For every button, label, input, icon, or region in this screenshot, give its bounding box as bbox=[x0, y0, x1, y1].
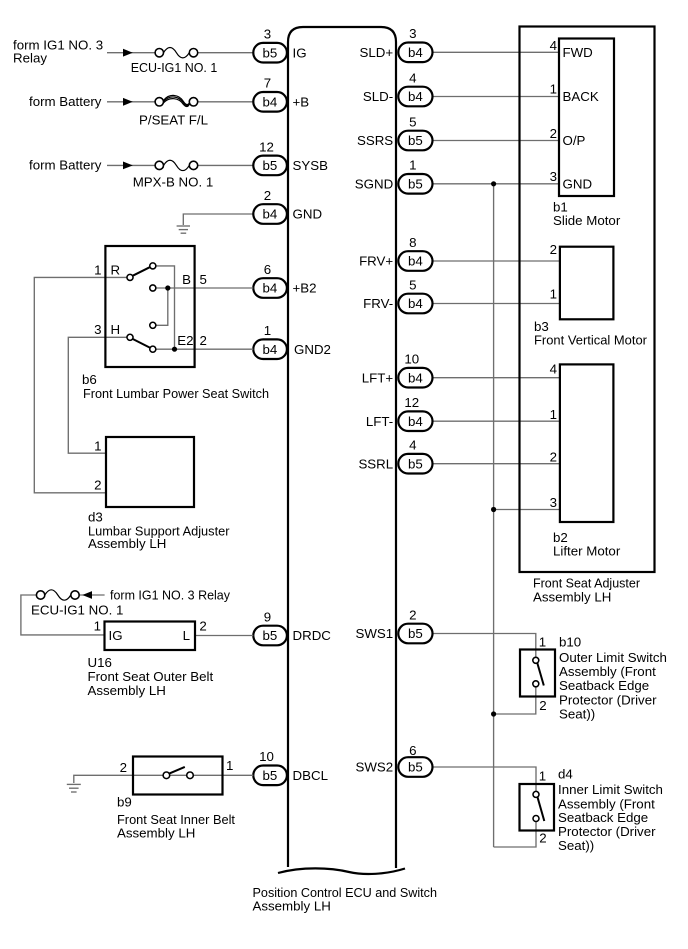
wire +B feed row bbox=[107, 101, 155, 103]
connector b4 pin 4 (SLD-) bbox=[398, 70, 432, 106]
arrow IG feed bbox=[123, 49, 133, 57]
svg-text:b5: b5 bbox=[408, 456, 423, 471]
svg-text:1: 1 bbox=[226, 758, 233, 773]
svg-text:U16: U16 bbox=[88, 655, 112, 670]
svg-text:b4: b4 bbox=[408, 414, 423, 429]
svg-text:Assembly (Front: Assembly (Front bbox=[559, 664, 656, 679]
svg-text:DBCL: DBCL bbox=[293, 768, 328, 783]
svg-text:b6: b6 bbox=[82, 372, 97, 387]
wire SGND to b1 GND bbox=[433, 183, 560, 185]
svg-text:SLD+: SLD+ bbox=[360, 45, 394, 60]
wire b6 internal B junction down to lower contact bbox=[156, 288, 168, 325]
switch b6 H pivot contact bbox=[127, 334, 133, 340]
svg-text:12: 12 bbox=[259, 139, 274, 154]
svg-text:H: H bbox=[111, 322, 121, 337]
svg-text:DRDC: DRDC bbox=[293, 628, 332, 643]
svg-text:form Battery: form Battery bbox=[29, 94, 102, 109]
svg-text:L: L bbox=[183, 628, 190, 643]
svg-text:Front Seat Adjuster: Front Seat Adjuster bbox=[533, 576, 641, 591]
wire SWS1 to b10 pin1 bbox=[433, 634, 536, 661]
wire U16 pin2 to DRDC connector bbox=[195, 635, 253, 637]
fuse ECU-IG1 NO. 1 (U16) bbox=[36, 590, 79, 600]
svg-text:MPX-B NO. 1: MPX-B NO. 1 bbox=[133, 174, 214, 189]
wire LFT+ to b2 pin4 bbox=[433, 377, 560, 379]
svg-text:GND2: GND2 bbox=[294, 342, 331, 357]
svg-text:FRV-: FRV- bbox=[363, 296, 393, 311]
box b3 Front Vertical Motor bbox=[560, 247, 614, 320]
switch b9 left contact bbox=[163, 772, 170, 779]
switch b9 right contact bbox=[187, 772, 194, 779]
svg-text:12: 12 bbox=[404, 395, 419, 410]
svg-text:GND: GND bbox=[563, 177, 593, 192]
svg-text:1: 1 bbox=[94, 619, 101, 634]
svg-text:LFT-: LFT- bbox=[366, 414, 393, 429]
wire IG feed row bbox=[107, 52, 155, 54]
svg-text:Front Seat Outer Belt: Front Seat Outer Belt bbox=[88, 669, 214, 684]
svg-text:1: 1 bbox=[550, 407, 557, 422]
svg-text:1: 1 bbox=[539, 635, 546, 650]
svg-text:+B2: +B2 bbox=[293, 281, 317, 296]
connector b5 pin 5 (SSRS) bbox=[398, 114, 432, 150]
svg-text:b4: b4 bbox=[408, 89, 423, 104]
svg-text:Relay: Relay bbox=[13, 51, 47, 66]
svg-text:ECU-IG1 NO. 1: ECU-IG1 NO. 1 bbox=[131, 60, 218, 75]
svg-text:Assembly LH: Assembly LH bbox=[117, 826, 195, 841]
svg-text:2: 2 bbox=[409, 607, 416, 622]
svg-text:6: 6 bbox=[264, 262, 271, 277]
svg-text:E2: E2 bbox=[177, 333, 193, 348]
svg-text:2: 2 bbox=[200, 333, 207, 348]
svg-text:LFT+: LFT+ bbox=[362, 370, 394, 385]
switch d4 lever bbox=[538, 797, 545, 821]
svg-text:2: 2 bbox=[550, 242, 557, 257]
svg-text:2: 2 bbox=[539, 698, 546, 713]
connector b4 pin 8 (FRV+) bbox=[398, 235, 432, 271]
svg-text:3: 3 bbox=[264, 27, 271, 42]
svg-text:b10: b10 bbox=[559, 634, 581, 649]
wire b10 pin2 return to bus bbox=[494, 684, 536, 714]
svg-text:form IG1 NO. 3 Relay: form IG1 NO. 3 Relay bbox=[110, 588, 230, 603]
ground symbol (b9) bbox=[67, 784, 81, 792]
switch b6 R lever bbox=[133, 267, 150, 276]
svg-text:BACK: BACK bbox=[563, 89, 599, 104]
svg-text:1: 1 bbox=[94, 262, 101, 277]
svg-text:form Battery: form Battery bbox=[29, 158, 102, 173]
connector b5 pin 9 (DRDC) bbox=[253, 609, 287, 645]
svg-text:Seatback Edge: Seatback Edge bbox=[559, 678, 649, 693]
svg-text:b5: b5 bbox=[263, 768, 278, 783]
svg-text:IG: IG bbox=[293, 45, 307, 60]
svg-text:SGND: SGND bbox=[355, 177, 393, 192]
svg-text:SLD-: SLD- bbox=[363, 89, 393, 104]
box d4 bbox=[520, 784, 555, 831]
svg-text:8: 8 bbox=[409, 235, 416, 250]
svg-text:3: 3 bbox=[409, 26, 416, 41]
svg-text:b5: b5 bbox=[408, 133, 423, 148]
wire b6 internal R contact down to E2 bbox=[156, 266, 175, 349]
wire b6 pin1 stub to R pivot bbox=[105, 276, 127, 278]
connector b4 pin 5 (FRV-) bbox=[398, 277, 432, 313]
wire bus to b2 pin3 bbox=[494, 509, 560, 511]
svg-text:GND: GND bbox=[293, 207, 323, 222]
wire IG fuse to connector bbox=[198, 52, 254, 54]
svg-text:2: 2 bbox=[264, 188, 271, 203]
svg-text:SWS1: SWS1 bbox=[356, 626, 394, 641]
svg-text:2: 2 bbox=[550, 450, 557, 465]
switch b6 B contact bbox=[150, 285, 156, 291]
fuse ECU-IG1 NO. 1 bbox=[155, 48, 198, 58]
svg-text:2: 2 bbox=[94, 478, 101, 493]
switch b10 lower contact bbox=[533, 681, 539, 687]
box b10 bbox=[520, 650, 555, 697]
svg-text:b5: b5 bbox=[408, 177, 423, 192]
svg-text:1: 1 bbox=[539, 769, 546, 784]
fusible link P/SEAT F/L bbox=[155, 95, 198, 106]
wire SYSB fuse to connector bbox=[198, 164, 254, 166]
svg-text:4: 4 bbox=[550, 38, 557, 53]
svg-text:3: 3 bbox=[550, 495, 557, 510]
svg-text:3: 3 bbox=[550, 169, 557, 184]
wire d4 pin2 return to bus bbox=[494, 819, 536, 848]
svg-text:b4: b4 bbox=[263, 207, 278, 222]
svg-text:6: 6 bbox=[409, 743, 416, 758]
wire b6 pin1 to d3 pin2 bbox=[34, 277, 106, 492]
svg-text:b5: b5 bbox=[408, 626, 423, 641]
svg-text:R: R bbox=[111, 262, 121, 277]
svg-text:Front Lumbar Power Seat Switch: Front Lumbar Power Seat Switch bbox=[83, 386, 269, 401]
svg-text:b5: b5 bbox=[263, 45, 278, 60]
box b9 bbox=[133, 757, 223, 795]
wire b6 B contact to +B2 connector bbox=[156, 287, 253, 289]
box b6 bbox=[105, 246, 194, 367]
svg-text:9: 9 bbox=[264, 609, 271, 624]
connector b5 pin 3 (IG) bbox=[253, 27, 287, 63]
svg-text:10: 10 bbox=[259, 749, 274, 764]
connector b5 pin 1 (SGND) bbox=[398, 158, 432, 194]
arrow U16 feed (pointing left) bbox=[82, 591, 92, 599]
wire SSRL to b2 pin2 bbox=[433, 463, 560, 465]
connector b5 pin 2 (SWS1) bbox=[398, 607, 432, 643]
svg-text:1: 1 bbox=[94, 438, 101, 453]
connector b4 pin 3 (SLD+) bbox=[398, 26, 432, 62]
wire b6 pin3 stub to H pivot bbox=[105, 336, 127, 338]
switch b6 lower B contact bbox=[150, 322, 156, 328]
svg-text:b5: b5 bbox=[263, 158, 278, 173]
svg-text:P/SEAT F/L: P/SEAT F/L bbox=[139, 113, 208, 128]
wire FRV- to b3 pin1 bbox=[433, 303, 560, 305]
connector b5 pin 10 (DBCL) bbox=[253, 749, 287, 785]
connector b5 pin 4 (SSRL) bbox=[398, 438, 432, 474]
switch b6 H lever bbox=[133, 339, 150, 348]
wire SYSB feed row bbox=[107, 164, 155, 166]
wire SLD- to b1 BACK bbox=[433, 96, 560, 98]
svg-text:IG: IG bbox=[109, 628, 123, 643]
svg-text:Lifter Motor: Lifter Motor bbox=[553, 543, 621, 558]
svg-text:Seat)): Seat)) bbox=[558, 838, 594, 853]
svg-text:SYSB: SYSB bbox=[293, 158, 329, 173]
svg-text:Protector (Driver: Protector (Driver bbox=[559, 692, 657, 707]
svg-text:Front Vertical Motor: Front Vertical Motor bbox=[534, 333, 648, 348]
wire LFT- to b2 pin1 bbox=[433, 420, 560, 422]
switch b6 R pivot contact bbox=[127, 274, 133, 280]
arrow +B feed bbox=[123, 98, 133, 106]
svg-text:Assembly LH: Assembly LH bbox=[253, 899, 331, 914]
connector b4 pin 10 (LFT+) bbox=[398, 352, 432, 388]
switch b10 upper contact bbox=[533, 657, 539, 663]
svg-text:1: 1 bbox=[550, 82, 557, 97]
svg-text:b4: b4 bbox=[408, 254, 423, 269]
svg-text:2: 2 bbox=[120, 760, 127, 775]
svg-text:1: 1 bbox=[409, 158, 416, 173]
svg-text:4: 4 bbox=[550, 361, 557, 376]
svg-text:3: 3 bbox=[94, 322, 101, 337]
svg-text:b5: b5 bbox=[408, 760, 423, 775]
svg-text:O/P: O/P bbox=[563, 133, 586, 148]
svg-text:4: 4 bbox=[409, 70, 416, 85]
svg-text:d4: d4 bbox=[558, 767, 573, 782]
junction dot bus at b10 return bbox=[491, 711, 496, 716]
connector b4 pin 6 (+B2) bbox=[253, 262, 287, 298]
svg-text:Outer Limit Switch: Outer Limit Switch bbox=[559, 650, 667, 665]
svg-text:b4: b4 bbox=[408, 45, 423, 60]
wire GND row to ground bbox=[183, 214, 253, 225]
svg-text:Seat)): Seat)) bbox=[559, 706, 595, 721]
svg-text:b4: b4 bbox=[408, 296, 423, 311]
svg-text:5: 5 bbox=[409, 277, 416, 292]
svg-text:2: 2 bbox=[199, 619, 206, 634]
svg-text:b9: b9 bbox=[117, 795, 132, 810]
svg-text:2: 2 bbox=[550, 126, 557, 141]
svg-text:1: 1 bbox=[550, 287, 557, 302]
svg-text:d3: d3 bbox=[88, 509, 103, 524]
wire SWS2 to d4 pin1 bbox=[433, 767, 537, 794]
ECU bottom break (wavy line) bbox=[278, 868, 405, 874]
fuse MPX-B NO. 1 bbox=[155, 160, 198, 170]
wire b9 row (ground to DBCL connector) bbox=[74, 775, 254, 783]
ECU body outline (Position Control ECU and Switch Assembly LH) bbox=[288, 27, 396, 868]
svg-text:SWS2: SWS2 bbox=[356, 760, 394, 775]
svg-text:b4: b4 bbox=[408, 370, 423, 385]
box U16 bbox=[105, 622, 196, 651]
connector b4 pin 12 (LFT-) bbox=[398, 395, 432, 431]
svg-text:SSRS: SSRS bbox=[357, 133, 393, 148]
svg-text:+B: +B bbox=[293, 95, 310, 110]
connector b4 pin 1 (GND2) bbox=[253, 323, 287, 359]
svg-text:ECU-IG1 NO. 1: ECU-IG1 NO. 1 bbox=[31, 603, 123, 618]
junction dot b6 B row bbox=[165, 285, 170, 290]
wire b6 pin3 to d3 pin1 bbox=[68, 337, 106, 453]
switch b9 lever bbox=[169, 767, 185, 774]
svg-text:Inner Limit Switch: Inner Limit Switch bbox=[558, 782, 663, 797]
svg-text:b4: b4 bbox=[263, 342, 278, 357]
wire U16 arrow stub bbox=[79, 594, 104, 596]
svg-text:b4: b4 bbox=[263, 95, 278, 110]
box d3 bbox=[106, 437, 194, 507]
arrow SYSB feed bbox=[123, 162, 133, 170]
svg-text:FWD: FWD bbox=[563, 45, 593, 60]
wire U16 feed from fuse bbox=[21, 595, 105, 635]
svg-text:FRV+: FRV+ bbox=[359, 254, 393, 269]
svg-text:1: 1 bbox=[264, 323, 271, 338]
svg-text:b4: b4 bbox=[263, 281, 278, 296]
svg-text:Slide Motor: Slide Motor bbox=[553, 213, 621, 228]
svg-text:10: 10 bbox=[404, 352, 419, 367]
svg-text:Assembly LH: Assembly LH bbox=[88, 683, 166, 698]
wire SLD+ to b1 FWD bbox=[433, 51, 560, 53]
svg-text:Assembly LH: Assembly LH bbox=[88, 536, 166, 551]
svg-text:5: 5 bbox=[409, 114, 416, 129]
connector b5 pin 6 (SWS2) bbox=[398, 743, 432, 777]
svg-text:b5: b5 bbox=[263, 628, 278, 643]
switch b6 H lower contact bbox=[150, 346, 156, 352]
svg-text:SSRL: SSRL bbox=[358, 456, 393, 471]
box b2 Lifter Motor bbox=[560, 364, 614, 522]
wire b6 E2 row to GND2 connector bbox=[156, 348, 253, 350]
ground symbol (GND row) bbox=[177, 226, 190, 233]
switch d4 lower contact bbox=[533, 816, 539, 822]
wire FRV+ to b3 pin2 bbox=[433, 260, 560, 262]
switch d4 upper contact bbox=[533, 791, 539, 797]
svg-text:Assembly LH: Assembly LH bbox=[533, 590, 611, 605]
box b1 Slide Motor bbox=[559, 39, 614, 197]
connector b5 pin 12 (SYSB) bbox=[253, 139, 287, 175]
switch b10 lever bbox=[537, 663, 544, 686]
junction dot bus at b2 pin3 bbox=[491, 507, 496, 512]
wire SSRS to b1 O/P bbox=[433, 140, 560, 142]
svg-text:B: B bbox=[182, 272, 191, 287]
svg-text:Seatback Edge: Seatback Edge bbox=[558, 810, 648, 825]
connector b4 pin 2 (GND) bbox=[253, 188, 287, 224]
switch b6 R upper contact bbox=[150, 263, 156, 269]
svg-text:5: 5 bbox=[200, 272, 207, 287]
svg-text:4: 4 bbox=[409, 438, 416, 453]
box Front Seat Adjuster Assembly LH bbox=[520, 27, 655, 573]
wire SGND ground bus (vertical) bbox=[493, 184, 495, 847]
wire +B fuse to connector bbox=[198, 101, 254, 103]
junction dot b6 E2 row bbox=[172, 347, 177, 352]
junction dot bus at SGND bbox=[491, 181, 496, 186]
connector b4 pin 7 (+B) bbox=[253, 76, 287, 112]
svg-text:7: 7 bbox=[264, 76, 271, 91]
svg-text:2: 2 bbox=[539, 831, 546, 846]
